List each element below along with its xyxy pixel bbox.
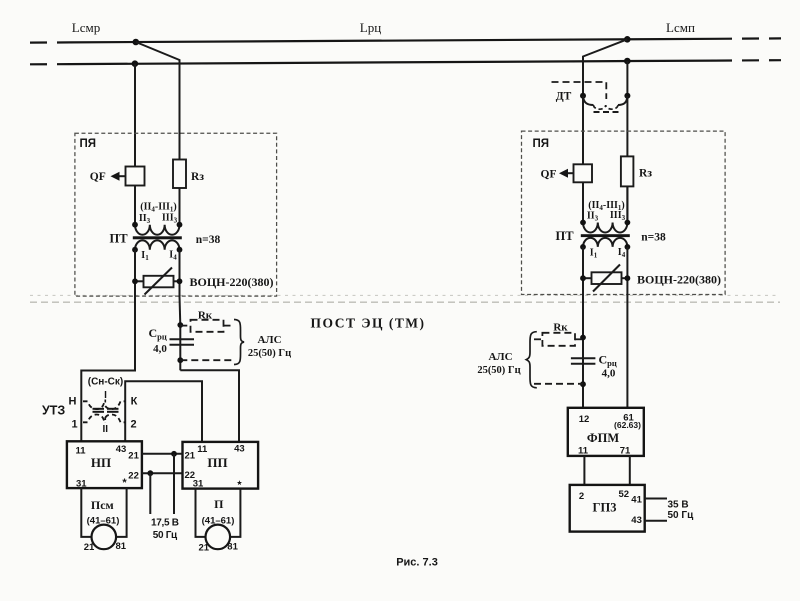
- rail 1 (top) dashed left end: [30, 41, 70, 43]
- node: Crc bottom (right): [580, 381, 586, 387]
- svg-text:31: 31: [76, 478, 87, 489]
- svg-text:II3: II3: [139, 213, 151, 225]
- svg-text:П: П: [214, 497, 224, 511]
- wire: UTZ right side riser and jog to PP terminal 11: [125, 381, 202, 442]
- separator line 2 (post boundary): [30, 301, 780, 303]
- svg-text:АЛС: АЛС: [488, 351, 512, 363]
- node: DT left terminal: [580, 93, 586, 99]
- svg-text:21: 21: [84, 542, 95, 553]
- svg-text:III3: III3: [610, 210, 626, 222]
- dashed cabinet box PYa (right): [522, 131, 726, 294]
- svg-text:11: 11: [75, 445, 86, 456]
- relay box NP: [67, 441, 142, 488]
- node: Crc bottom (left): [177, 357, 183, 363]
- transformer PT (right) secondary winding: [583, 238, 627, 247]
- svg-text:81: 81: [227, 542, 238, 553]
- DT core dashed line: [594, 111, 620, 113]
- capacitor Crc (right) plates: [571, 357, 596, 359]
- transformer PT (right) primary winding: [583, 223, 627, 233]
- wire: left drop below PYa (left circuit): [81, 296, 135, 441]
- svg-text:АЛС: АЛС: [257, 334, 281, 346]
- svg-text:4,0: 4,0: [153, 343, 167, 355]
- node VOCN left terminals: [132, 278, 138, 284]
- svg-text:50 Гц: 50 Гц: [153, 530, 178, 541]
- wire: jog to PP terminal 43: [180, 370, 239, 442]
- svg-text:21: 21: [199, 543, 210, 554]
- svg-text:11: 11: [578, 445, 589, 456]
- dashed wire ALS bottom (left): [180, 359, 235, 361]
- wire: diagonal from rail 1 to right circuit: [583, 39, 627, 165]
- svg-text:I1: I1: [141, 250, 149, 262]
- node PT left top terminals: [132, 222, 138, 228]
- svg-text:52: 52: [619, 489, 630, 500]
- wire: FPM 11 to GP3 2: [583, 456, 585, 485]
- separator line 1 (post boundary): [30, 294, 778, 296]
- svg-text:25(50) Гц: 25(50) Гц: [248, 348, 291, 359]
- node: DT right terminal: [624, 93, 630, 99]
- svg-text:22: 22: [128, 471, 139, 482]
- svg-text:81: 81: [116, 541, 127, 552]
- node: left joint on rail 1: [133, 39, 140, 46]
- generator box GP3: [570, 485, 645, 532]
- svg-text:I4: I4: [169, 250, 177, 262]
- wire: right drop below PYa through Crc (left circuit): [179, 296, 182, 325]
- motor Psm circle: [92, 525, 117, 550]
- svg-text:I1: I1: [590, 248, 598, 260]
- rail 2 (bottom) dashed left end: [30, 63, 70, 65]
- svg-text:II3: II3: [587, 211, 599, 223]
- breaker QF (left) box: [126, 167, 145, 186]
- svg-text:50 Гц: 50 Гц: [668, 510, 695, 521]
- node: right joint on rail 2: [624, 58, 631, 65]
- Rk dashed leads (left): [180, 325, 190, 327]
- wire: GP3 43 supply stub: [645, 520, 667, 522]
- relay box PP: [183, 442, 259, 489]
- resistor Rk (right) dashed body: [542, 333, 575, 346]
- wire: NP to motor Psm right: [116, 488, 127, 537]
- wire: diagonal from rail 1 to left circuit: [136, 42, 180, 160]
- svg-text:n=38: n=38: [641, 232, 666, 244]
- wire: right drop to FPM 61: [626, 295, 628, 408]
- svg-text:Lрц: Lрц: [360, 20, 381, 35]
- svg-text:Псм: Псм: [91, 498, 114, 512]
- motor P circle: [206, 525, 231, 550]
- svg-text:ВОЦН-220(380): ВОЦН-220(380): [190, 275, 274, 289]
- wire: QF to PT (right): [582, 182, 584, 222]
- svg-text:Rз: Rз: [191, 171, 204, 183]
- svg-text:ПТ: ПТ: [555, 229, 574, 243]
- UTZ core bars: [93, 408, 105, 410]
- svg-text:Lсмп: Lсмп: [666, 20, 695, 35]
- DT winding dashed arcs: [594, 105, 618, 109]
- rail 1 (top): [70, 39, 715, 43]
- resistor Rk (left) dashed body: [191, 320, 224, 332]
- node: Crc top (left): [177, 322, 183, 328]
- node VOCN right terminals: [580, 275, 586, 281]
- svg-text:43: 43: [116, 444, 127, 455]
- varistor VOCN (right) body: [592, 272, 622, 284]
- node PT right top terminals: [580, 220, 586, 226]
- svg-text:Н: Н: [69, 395, 77, 407]
- svg-text:ПЯ: ПЯ: [80, 138, 97, 150]
- transformer PT (left) secondary winding: [135, 240, 179, 249]
- svg-text:ПТ: ПТ: [109, 232, 128, 246]
- brace right (left ALS): [234, 320, 244, 365]
- rail 2 (bottom): [70, 61, 715, 65]
- varistor VOCN (left) body: [144, 276, 174, 288]
- wire: NP21 to PP21: [142, 453, 183, 455]
- varistor VOCN (left) leads: [135, 280, 144, 282]
- svg-text:2: 2: [130, 418, 136, 430]
- svg-text:Cрц: Cрц: [599, 353, 617, 369]
- node on 21 wire: [171, 451, 177, 457]
- svg-text:*: *: [122, 477, 127, 489]
- wire: GP3 41 supply stub: [645, 498, 667, 500]
- svg-text:17,5 В: 17,5 В: [151, 517, 179, 528]
- svg-text:ПЯ: ПЯ: [533, 138, 550, 150]
- node on 22 wire: [147, 470, 153, 476]
- svg-text:К: К: [131, 395, 138, 407]
- svg-text:21: 21: [128, 450, 139, 461]
- node: Crc top (right): [580, 335, 586, 341]
- transformer PT (right) core: [581, 234, 630, 237]
- svg-text:Lсмр: Lсмр: [72, 20, 100, 35]
- svg-text:НП: НП: [91, 455, 111, 470]
- varistor VOCN (right) leads: [583, 277, 592, 279]
- svg-text:II: II: [103, 424, 109, 435]
- wire: PT to VOCN (right): [582, 247, 584, 295]
- DT winding left solid curve: [583, 96, 594, 105]
- UTZ center tap dashes: [104, 400, 106, 405]
- transformer PT (left) primary winding: [135, 225, 179, 235]
- svg-text:n=38: n=38: [196, 234, 221, 246]
- wire: QF to PT (left): [134, 186, 136, 225]
- wire: PT to VOCN (left): [134, 250, 136, 296]
- node PT right bottom terminals: [580, 244, 586, 250]
- svg-text:QF: QF: [541, 169, 557, 181]
- transformer PT (left) core: [133, 236, 182, 239]
- rail 2 (bottom) dashed right end: [715, 59, 781, 62]
- svg-text:43: 43: [631, 515, 642, 526]
- breaker QF (right) box: [574, 164, 593, 182]
- svg-text:35 В: 35 В: [668, 499, 689, 510]
- rail 1 (top) dashed right end: [715, 37, 781, 40]
- svg-text:QF: QF: [90, 171, 106, 183]
- svg-text:III3: III3: [162, 213, 178, 225]
- svg-text:Рис. 7.3: Рис. 7.3: [396, 557, 438, 569]
- svg-text:Cрц: Cрц: [149, 326, 167, 342]
- wire: NP22 to PP22: [142, 472, 183, 474]
- svg-text:11: 11: [197, 444, 208, 455]
- breaker QF (left) arrow: [117, 175, 126, 177]
- wire: right circuit right drop: [626, 61, 628, 223]
- filter box FPM: [568, 408, 644, 456]
- svg-text:12: 12: [579, 414, 590, 425]
- wire: left circuit left drop: [134, 64, 136, 167]
- wire: supply drop from 22: [149, 473, 151, 514]
- DT winding right solid curve: [618, 96, 628, 105]
- dashed cabinet box PYa (left): [75, 133, 277, 296]
- node PT left bottom terminals: [132, 247, 138, 253]
- svg-text:(62.63): (62.63): [614, 420, 641, 430]
- wire: R3 to PT (right): [626, 186, 628, 222]
- svg-text:ВОЦН-220(380): ВОЦН-220(380): [637, 272, 721, 286]
- capacitor Crc (left) plates: [170, 338, 195, 340]
- resistor R3 (left): [173, 160, 186, 189]
- wire: supply drop from 21: [173, 454, 175, 514]
- svg-text:Rз: Rз: [639, 168, 652, 180]
- svg-text:25(50) Гц: 25(50) Гц: [477, 365, 520, 376]
- svg-text:ГП3: ГП3: [593, 500, 617, 514]
- svg-text:ФПМ: ФПМ: [587, 431, 619, 445]
- varistor VOCN (right) diagonal: [593, 265, 620, 292]
- svg-text:УТЗ: УТЗ: [42, 404, 65, 418]
- node: right joint on rail 1: [624, 36, 631, 43]
- breaker QF (right) arrow: [565, 172, 574, 174]
- svg-text:Rк: Rк: [553, 321, 568, 333]
- svg-text:4,0: 4,0: [602, 367, 616, 379]
- Rk dashed leads (right): [575, 338, 583, 340]
- svg-text:ПОСТ ЭЦ (ТМ): ПОСТ ЭЦ (ТМ): [311, 316, 426, 331]
- svg-text:I: I: [104, 390, 107, 401]
- resistor R3 (right): [621, 156, 634, 186]
- wire: NP to motor Psm left: [81, 488, 91, 537]
- wire: left drop below PYa (right circuit): [582, 295, 584, 408]
- brace left (right ALS): [526, 332, 537, 388]
- UTZ winding I (dashed): [83, 401, 125, 409]
- svg-text:43: 43: [234, 443, 245, 454]
- svg-text:(Сн-Ск): (Сн-Ск): [88, 376, 123, 387]
- varistor VOCN (left) diagonal: [145, 268, 173, 295]
- dashed wire ALS bottom (right): [534, 383, 583, 385]
- node: left joint on rail 2: [132, 60, 139, 67]
- choke transformer DT dashed lead: [552, 82, 607, 99]
- wire: FPM 71 to GP3 52: [629, 456, 631, 485]
- svg-text:71: 71: [620, 445, 631, 456]
- svg-text:21: 21: [185, 450, 196, 461]
- svg-text:1: 1: [71, 418, 77, 430]
- svg-text:ДТ: ДТ: [556, 91, 572, 103]
- wire: PP to motor P left: [196, 489, 206, 537]
- UTZ winding II (dashed): [83, 415, 125, 423]
- wire: R3 to PT (left): [179, 188, 181, 225]
- svg-text:31: 31: [193, 478, 204, 489]
- svg-text:Rк: Rк: [198, 309, 213, 321]
- svg-text:ПП: ПП: [207, 455, 227, 470]
- svg-text:2: 2: [579, 491, 584, 502]
- svg-text:I4: I4: [618, 247, 626, 259]
- wire: PP to motor P right: [230, 489, 240, 537]
- svg-text:41: 41: [631, 495, 642, 506]
